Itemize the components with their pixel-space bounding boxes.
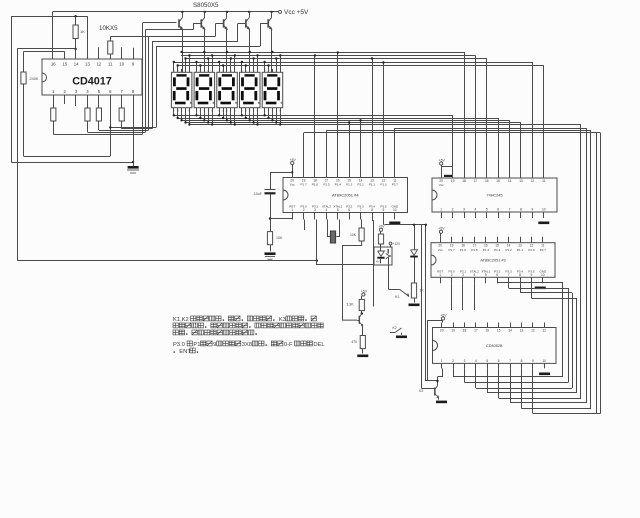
svg-text:K1: K1 xyxy=(395,295,399,299)
svg-text:74HC245: 74HC245 xyxy=(486,194,502,198)
svg-text:4: 4 xyxy=(326,208,328,212)
svg-text:4: 4 xyxy=(475,359,477,363)
svg-text:2: 2 xyxy=(303,208,305,212)
svg-text:+5V: +5V xyxy=(290,158,297,162)
svg-text:P1: P1 xyxy=(193,342,200,348)
svg-text:9: 9 xyxy=(532,208,534,212)
svg-text:K2: K2 xyxy=(393,326,397,330)
svg-text:+5V: +5V xyxy=(361,289,368,293)
svg-text:K3: K3 xyxy=(419,389,423,393)
svg-text:P1.5: P1.5 xyxy=(323,183,330,187)
svg-text:P1.2: P1.2 xyxy=(506,248,513,252)
svg-text:19: 19 xyxy=(451,179,455,183)
svg-text:P1.7: P1.7 xyxy=(301,183,308,187)
svg-text:AT89C2051 #4: AT89C2051 #4 xyxy=(332,193,359,198)
svg-text:1: 1 xyxy=(441,359,443,363)
svg-text:ENT: ENT xyxy=(179,349,191,355)
svg-text:4: 4 xyxy=(475,208,477,212)
svg-text:15: 15 xyxy=(497,329,501,333)
svg-text:18: 18 xyxy=(463,329,467,333)
svg-text:+12V: +12V xyxy=(393,242,401,246)
svg-text:10: 10 xyxy=(393,208,397,212)
svg-text:Vcc: Vcc xyxy=(438,248,444,252)
svg-text:DEL: DEL xyxy=(313,342,325,348)
svg-text:P1.1: P1.1 xyxy=(517,248,524,252)
svg-text:CD4052B: CD4052B xyxy=(486,344,503,348)
svg-text:7: 7 xyxy=(508,273,510,277)
svg-text:8: 8 xyxy=(519,273,521,277)
svg-text:K3: K3 xyxy=(279,317,286,323)
svg-text:Vcc +5V: Vcc +5V xyxy=(284,9,309,16)
svg-text:P1.3: P1.3 xyxy=(494,248,501,252)
svg-text:12: 12 xyxy=(531,179,535,183)
svg-text:5: 5 xyxy=(486,359,488,363)
svg-text:AT89C2051 #3: AT89C2051 #3 xyxy=(480,259,505,263)
svg-text:P1.3: P1.3 xyxy=(346,183,353,187)
svg-text:7: 7 xyxy=(360,208,362,212)
svg-text:470: 470 xyxy=(351,340,357,344)
svg-text:2: 2 xyxy=(452,359,454,363)
svg-text:8: 8 xyxy=(371,208,373,212)
svg-text:12: 12 xyxy=(97,62,102,67)
svg-text:18: 18 xyxy=(462,179,466,183)
svg-text:6: 6 xyxy=(496,273,498,277)
svg-text:P3.7: P3.7 xyxy=(540,248,547,252)
svg-text:10: 10 xyxy=(542,208,546,212)
svg-text:3.3K: 3.3K xyxy=(346,303,354,307)
svg-text:13: 13 xyxy=(519,179,523,183)
svg-text:13: 13 xyxy=(85,62,90,67)
svg-text:7: 7 xyxy=(509,208,511,212)
svg-text:9: 9 xyxy=(383,208,385,212)
svg-text:6: 6 xyxy=(348,208,350,212)
svg-text:8: 8 xyxy=(521,359,523,363)
svg-text:S8050X5: S8050X5 xyxy=(193,2,219,9)
svg-text:17: 17 xyxy=(474,329,478,333)
svg-text:K1,K2: K1,K2 xyxy=(173,317,189,323)
svg-text:+5V: +5V xyxy=(440,313,447,317)
svg-text:P1.5: P1.5 xyxy=(471,248,478,252)
svg-text:16: 16 xyxy=(486,329,490,333)
svg-text:6: 6 xyxy=(498,359,500,363)
svg-text:3: 3 xyxy=(464,359,466,363)
svg-text:20: 20 xyxy=(440,329,444,333)
svg-text:240K: 240K xyxy=(30,77,39,81)
svg-text:P1.1: P1.1 xyxy=(369,183,376,187)
svg-text:P1.2: P1.2 xyxy=(358,183,365,187)
svg-text:15: 15 xyxy=(496,179,500,183)
svg-text:0-F: 0-F xyxy=(284,342,293,348)
svg-text:6: 6 xyxy=(497,208,499,212)
svg-text:10: 10 xyxy=(541,273,545,277)
svg-text:10uF: 10uF xyxy=(254,192,263,196)
svg-text:9: 9 xyxy=(531,273,533,277)
svg-text:4N?: 4N? xyxy=(376,261,381,264)
svg-text:+5V: +5V xyxy=(439,158,446,162)
svg-text:4: 4 xyxy=(474,273,476,277)
svg-text:P3.7: P3.7 xyxy=(392,183,399,187)
svg-text:10: 10 xyxy=(543,359,547,363)
svg-text:9: 9 xyxy=(213,342,216,348)
svg-text:3: 3 xyxy=(463,208,465,212)
svg-text:P1.0: P1.0 xyxy=(380,183,387,187)
svg-text:14: 14 xyxy=(508,329,512,333)
svg-text:9: 9 xyxy=(532,359,534,363)
svg-text:5: 5 xyxy=(485,273,487,277)
svg-text:15: 15 xyxy=(62,62,67,67)
svg-text:2: 2 xyxy=(452,208,454,212)
svg-text:P1.6: P1.6 xyxy=(460,248,467,252)
svg-text:10KX5: 10KX5 xyxy=(99,25,118,32)
svg-text:P3.0: P3.0 xyxy=(173,342,185,348)
svg-text:7: 7 xyxy=(509,359,511,363)
svg-text:13: 13 xyxy=(520,329,524,333)
svg-text:8: 8 xyxy=(520,208,522,212)
svg-text:+5V: +5V xyxy=(438,227,445,231)
svg-text:2: 2 xyxy=(451,273,453,277)
svg-text:P1.4: P1.4 xyxy=(335,183,342,187)
svg-text:17: 17 xyxy=(474,179,478,183)
svg-text:11: 11 xyxy=(543,329,547,333)
svg-text:1: 1 xyxy=(440,208,442,212)
svg-text:1: 1 xyxy=(439,273,441,277)
svg-text:3: 3 xyxy=(314,208,316,212)
svg-text:5: 5 xyxy=(337,208,339,212)
svg-text:11: 11 xyxy=(542,179,546,183)
svg-text:Vcc: Vcc xyxy=(290,183,296,187)
svg-text:10: 10 xyxy=(119,62,124,67)
svg-text:1: 1 xyxy=(291,208,293,212)
svg-text:14: 14 xyxy=(74,62,79,67)
svg-text:1K: 1K xyxy=(80,29,85,34)
svg-text:14: 14 xyxy=(508,179,512,183)
svg-text:16: 16 xyxy=(51,62,56,67)
svg-text:11: 11 xyxy=(108,62,113,67)
svg-text:19: 19 xyxy=(451,329,455,333)
svg-text:CD4017: CD4017 xyxy=(72,76,112,88)
svg-text:P1.4: P1.4 xyxy=(483,248,490,252)
svg-text:3: 3 xyxy=(462,273,464,277)
svg-text:Vcc: Vcc xyxy=(439,183,445,187)
svg-text:P1.7: P1.7 xyxy=(449,248,456,252)
svg-text:P1.0: P1.0 xyxy=(528,248,535,252)
svg-text:+5V: +5V xyxy=(378,225,385,229)
svg-text:P1.6: P1.6 xyxy=(312,183,319,187)
svg-text:10K: 10K xyxy=(276,236,283,240)
svg-text:5: 5 xyxy=(486,208,488,212)
svg-text:3X8: 3X8 xyxy=(242,342,252,348)
svg-text:1K: 1K xyxy=(420,289,425,293)
svg-text:10K: 10K xyxy=(350,233,357,237)
svg-text:12: 12 xyxy=(531,329,535,333)
svg-text:16: 16 xyxy=(485,179,489,183)
